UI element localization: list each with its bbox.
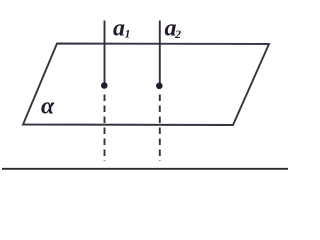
plane alpha (parallelogram) xyxy=(23,44,269,126)
point on plane for a1 xyxy=(101,82,108,89)
point on plane for a2 xyxy=(156,83,163,90)
svg-text:a: a xyxy=(113,16,125,42)
line a1 solid part xyxy=(104,21,106,86)
line a1 dashed hidden part xyxy=(104,95,106,162)
line a2 dashed hidden part xyxy=(159,95,161,162)
svg-text:1: 1 xyxy=(125,27,131,41)
svg-text:α: α xyxy=(41,94,55,120)
bottom separator rule xyxy=(2,168,288,170)
line a2 solid part xyxy=(159,21,161,86)
svg-text:2: 2 xyxy=(174,27,181,41)
